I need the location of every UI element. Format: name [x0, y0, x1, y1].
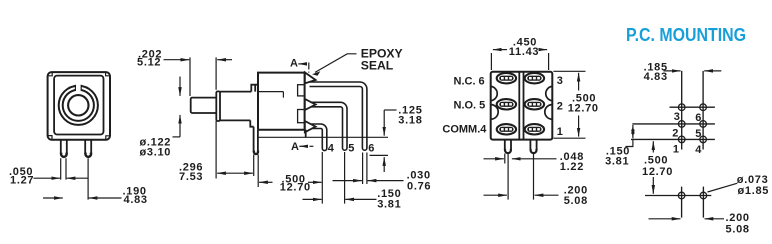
hole grid crosshair horizontals	[631, 107, 715, 139]
top tab between bushing and body	[251, 85, 258, 92]
grid holes	[678, 104, 685, 111]
svg-text:5.08: 5.08	[726, 224, 750, 236]
svg-text:.200: .200	[726, 212, 750, 224]
dimension .050/1.27 leg width	[34, 177, 61, 179]
bottom holes	[678, 192, 685, 199]
svg-text:1.22: 1.22	[560, 161, 584, 173]
dimension .450/11.43	[491, 53, 548, 70]
svg-text:3.81: 3.81	[377, 199, 401, 211]
svg-text:3.18: 3.18	[398, 115, 422, 127]
svg-text:A: A	[291, 141, 299, 153]
button ring circle	[63, 90, 94, 121]
dimension .200/5.08	[484, 194, 508, 196]
side scallops left	[491, 86, 498, 119]
svg-text:5: 5	[695, 128, 702, 140]
svg-text:SEAL: SEAL	[361, 59, 394, 73]
svg-text:N.C. 6: N.C. 6	[454, 75, 485, 87]
svg-text:4: 4	[695, 144, 702, 156]
base strip right edge	[305, 130, 307, 138]
svg-text:6: 6	[695, 112, 702, 124]
svg-text:3: 3	[674, 111, 681, 123]
svg-text:P.C. MOUNTING: P.C. MOUNTING	[626, 25, 746, 45]
dimension dia .122/3.10 plunger diameter	[179, 77, 181, 96]
svg-text:2: 2	[672, 128, 679, 140]
seating plane line	[258, 136, 388, 138]
extension lines under legs	[61, 158, 88, 199]
svg-text:12.70: 12.70	[280, 182, 311, 194]
epoxy seal wedge bottom	[305, 121, 316, 132]
side scallops right	[545, 86, 552, 119]
svg-text:7.53: 7.53	[179, 171, 203, 183]
hole grid crosshair verticals	[682, 71, 703, 150]
button outer circle	[59, 86, 98, 125]
left mounting leg	[61, 140, 67, 154]
front flange	[216, 91, 220, 121]
bottom step before leg	[250, 120, 253, 126]
dimension .500/12.70 vertical	[652, 141, 654, 152]
side-view mounting leg	[254, 127, 258, 152]
rear body	[491, 72, 553, 140]
pin tip reference line	[370, 154, 389, 156]
svg-text:COMM.4: COMM.4	[442, 124, 487, 136]
svg-text:3.81: 3.81	[605, 156, 629, 168]
svg-text:.030: .030	[407, 169, 431, 181]
terminal pin 4 (bottom)	[312, 124, 327, 151]
svg-text:1.27: 1.27	[10, 174, 34, 186]
internal seam lines	[258, 92, 283, 98]
dimension .150/3.81 pin spacing	[303, 198, 322, 200]
svg-text:5.08: 5.08	[564, 195, 588, 207]
extension lines under pins	[322, 152, 367, 204]
svg-text:.500: .500	[644, 155, 668, 167]
svg-text:2: 2	[557, 100, 563, 112]
svg-text:A: A	[290, 57, 298, 69]
right mounting leg	[85, 140, 91, 154]
dimension .500/12.70	[259, 181, 272, 183]
dimension .500/12.70 right	[553, 71, 585, 138]
terminals 2x3	[497, 73, 544, 135]
epoxy seal leader	[315, 54, 357, 73]
svg-text:1: 1	[673, 143, 680, 155]
svg-text:6: 6	[368, 143, 374, 155]
svg-text:ø1.85: ø1.85	[738, 185, 770, 197]
epoxy seal wedge top	[305, 72, 316, 83]
svg-text:0.76: 0.76	[407, 181, 431, 193]
svg-text:5.12: 5.12	[137, 57, 161, 69]
svg-text:12.70: 12.70	[568, 102, 599, 114]
svg-text:4: 4	[328, 142, 335, 154]
terminal pin 5 (middle)	[311, 102, 348, 150]
dimension .190/4.83 leg spacing	[43, 197, 63, 199]
svg-text:3: 3	[557, 75, 563, 87]
center post	[519, 72, 523, 140]
svg-text:1: 1	[557, 126, 563, 138]
plunger	[191, 98, 217, 113]
svg-text:4.83: 4.83	[644, 71, 668, 83]
extension lines under rear legs	[505, 154, 534, 200]
rear legs	[505, 140, 537, 150]
rear face notches	[298, 85, 305, 96]
dimension .030/0.76 pin thickness	[333, 180, 362, 182]
button inner circle	[68, 95, 88, 115]
ring keyway notch	[75, 84, 81, 91]
svg-text:ø3.10: ø3.10	[140, 146, 172, 158]
switch body outer outline	[48, 72, 110, 140]
svg-text:4.83: 4.83	[124, 194, 148, 206]
bushing housing top/bottom	[220, 92, 251, 121]
svg-text:11.43: 11.43	[509, 46, 539, 58]
bottom hole row line	[645, 195, 711, 197]
switch body corner tabs	[48, 73, 109, 139]
switch body inner frame	[54, 76, 103, 135]
bottom hole verticals	[682, 187, 704, 218]
dimension .150/3.81 rows	[632, 125, 634, 132]
rear body block	[258, 73, 306, 130]
epoxy seal wedge middle	[305, 99, 316, 110]
extension line below flange	[216, 121, 258, 187]
terminal pin 6 (top, bends at far right)	[310, 82, 367, 150]
dimension .200/5.08 bottom	[649, 218, 681, 220]
dimension .048/1.22	[484, 158, 504, 160]
svg-text:5: 5	[348, 142, 354, 154]
svg-text:N.O. 5: N.O. 5	[454, 99, 486, 111]
svg-text:12.70: 12.70	[642, 166, 673, 178]
